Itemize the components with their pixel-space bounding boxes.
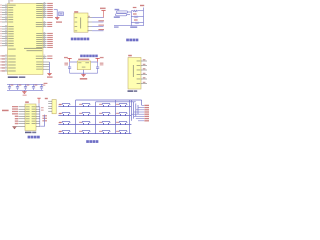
capacitor C8 decoupling [40,84,45,90]
caption matrix keypad text [86,140,98,143]
power VCC symbol left of regulator [64,57,72,62]
pushbutton S3 [99,103,110,106]
J1 pins 1-6 with stubs and numbers [137,59,147,84]
wire keypad row 3 [58,122,131,125]
node VCC label top of serial circuit [140,5,144,6]
RP1 net labels below [42,115,47,121]
U1 left pins P1.0-P1.7 with stubs [0,4,16,23]
wire VCC into U3 right side [36,103,39,106]
IC U1 AT89C52 microcontroller body [8,4,44,75]
U4 pin 1 wire up to VCC [88,11,104,18]
wire from RP1 area down left [40,115,44,127]
wire regulator output to VCC [90,61,98,63]
J1 part name text [128,90,138,92]
resistor network RP1 body [52,100,56,114]
U1 part name text AT89C52 [8,76,26,78]
capacitor C3 on EA net [59,12,64,16]
node flag TXD of serial circuit [115,9,132,13]
ground of capacitor bank [22,90,26,95]
caption buzzer circuit text [71,38,89,41]
U3 left pins with red net labels [12,106,30,124]
resistor R2 of serial circuit [133,7,137,12]
ground for U1 ground pins [47,73,53,77]
RP1 reference designator [45,98,48,99]
wire VCC to regulator input [70,61,77,63]
regulator U2 7805 body [77,61,90,70]
U4 pins 2-4 with red net labels [88,16,105,31]
pushbutton S10 [79,121,90,124]
wire serial circuit right vertical [143,8,145,26]
capacitor C9 regulator input [64,62,71,73]
connector J1 body [128,58,141,90]
pushbutton S4 [116,103,127,106]
wire VCC to U1 pin 40 top [9,0,13,4]
pushbutton S9 [59,121,70,124]
pushbutton S14 [79,130,90,133]
ground for U3 [12,127,16,130]
wire capacitor bank bottom rail [7,89,43,91]
power VCC symbol right of regulator [96,57,104,62]
pushbutton S11 [99,121,110,124]
U1 right pins RXD TXD with red net labels [36,55,53,59]
wire keypad column 3 [115,100,117,134]
wire regulator GND pin down [83,70,85,75]
capacitor C5 decoupling [16,84,21,90]
U1 left pins XTAL1 XTAL2 GND with stubs [0,55,15,72]
U1 internal label VSS row [8,48,42,51]
U3 part name text [25,132,36,134]
capacitor C7 decoupling [32,84,37,90]
wire keypad top bus [76,100,142,102]
wire keypad row 2 [58,113,131,116]
J1 reference designator [128,55,132,57]
U1 left pins RST P3.0-P3.7 with stubs [0,25,14,46]
capacitor C4 decoupling [8,84,13,90]
pushbutton S13 [59,130,70,133]
U3 right pins stubs with bus [32,106,44,126]
keypad connector pins with red net labels [131,105,149,122]
caption display circuit text [28,136,40,139]
U1 right pins EA ALE PSEN with red net labels [36,21,52,27]
U3 reference designator [25,101,29,103]
ground of power circuit [80,75,87,80]
ground below EA capacitor [55,18,62,23]
node net label left of U3 [2,110,9,112]
pushbutton S5 [59,112,70,115]
node VCC label at cap bank right [44,83,48,84]
caption reset circuit text [126,39,138,42]
wire U1 ground pins bus [49,62,51,73]
resistor R3 of serial circuit [131,13,143,17]
pushbutton S15 [99,130,110,133]
power VCC symbol above U3 [37,98,40,103]
resistor R4 of serial circuit [131,19,143,23]
pushbutton S16 [116,130,127,133]
wire power circuit bottom rail [70,72,98,74]
wire keypad column 2 [95,102,97,134]
RP1 pins [48,101,52,111]
U1 right pins P2.0-P2.7 with red net labels [36,32,53,48]
U1 right pins P0.0-P0.7 with red net labels [36,2,53,18]
pushbutton S2 [79,103,90,106]
pushbutton S6 [79,112,90,115]
wire serial circuit bottom with net label [114,26,144,28]
capacitor C6 decoupling [24,84,29,90]
wire keypad right bus verticals [131,100,141,121]
latch U3 body [25,104,36,131]
pushbutton S12 [116,121,127,124]
wire keypad column 4 [129,100,131,134]
wire keypad column 1 [75,100,77,134]
caption power circuit text [80,55,98,58]
U4 reference designator [74,11,78,12]
U1 right ground pins tied together [36,62,49,70]
wire capacitor bank top rail [7,83,43,85]
pushbutton S8 [116,112,127,115]
pushbutton S1 [59,103,70,106]
wire R2 links [131,11,143,26]
wire keypad row 4 [58,131,131,134]
wire U3 GND pin to ground [17,126,26,128]
pushbutton S7 [99,112,110,115]
U2 reference designator [78,59,89,61]
wire keypad row 1 [58,104,131,107]
node flag RXD of serial circuit [114,14,130,18]
IC U4 buzzer driver body [74,13,88,32]
power VCC symbol above U4 [100,8,106,11]
capacitor C10 regulator output [96,62,103,73]
wire U1 EA pin to VCC [54,10,57,18]
